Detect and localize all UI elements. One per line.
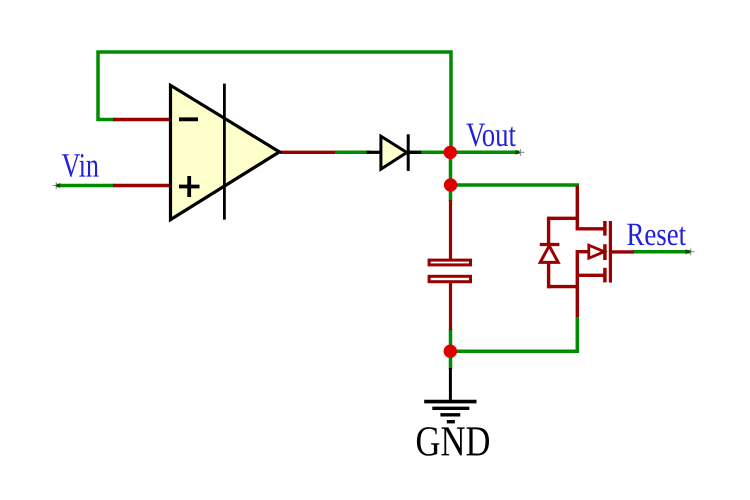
transistor Q1 bottom horizontal to body diode	[549, 285, 579, 288]
wire MOSFET source down to bottom wire	[576, 317, 580, 353]
pin op-amp non-inverting input	[113, 184, 170, 187]
pin diode cathode stub	[408, 151, 421, 154]
ground symbol bar 3	[440, 413, 460, 416]
pin ground	[449, 368, 452, 402]
wire bottom horizontal junction3 to MOSFET source	[451, 349, 579, 353]
transistor Q1 gate bar	[609, 221, 612, 283]
ground symbol bar 4	[447, 420, 455, 423]
wire capacitor bottom to junction3	[449, 329, 453, 352]
transistor Q1 source contact bar	[603, 268, 607, 283]
pin op-amp output	[280, 151, 335, 154]
diode D1 cathode bar	[407, 134, 410, 171]
capacitor C1 top plate	[429, 260, 470, 265]
op-amp U1 power rail line	[223, 84, 226, 220]
wire op-amp output to diode anode	[334, 151, 371, 155]
transistor Q1 body diode cathode bar	[540, 243, 560, 246]
op-amp U1 minus symbol	[179, 117, 198, 121]
wire junction2 down to capacitor pin	[449, 185, 453, 201]
transistor Q1 body line	[577, 250, 598, 253]
transistor Q1 middle contact bar	[603, 244, 607, 260]
capacitor C1 bottom plate	[429, 276, 470, 281]
transistor Q1 drain contact bar	[603, 221, 607, 236]
label GND	[417, 427, 489, 456]
Vout wire end arrow	[516, 149, 525, 156]
pin MOSFET drain lead	[577, 186, 605, 229]
pin MOSFET gate (Reset)	[611, 250, 635, 253]
wire Vin net	[56, 184, 115, 188]
transistor Q1 body arrow	[589, 245, 605, 258]
wire Vout net stub	[450, 151, 520, 155]
diode D1 body	[381, 136, 407, 169]
junction node drain	[444, 178, 457, 191]
pin capacitor bottom	[449, 283, 452, 330]
Vin wire end arrow	[53, 182, 61, 189]
wire junction2 to MOSFET drain column	[451, 183, 580, 187]
transistor Q1 body diode triangle	[540, 246, 558, 263]
pin capacitor top	[449, 200, 452, 259]
junction node ground	[444, 345, 457, 358]
label Vout	[466, 124, 516, 147]
op-amp U1 body	[171, 85, 280, 219]
label Vin	[62, 154, 99, 177]
wire junction3 to ground pin	[449, 351, 453, 369]
wire diode cathode to node Vout	[408, 151, 452, 155]
pin op-amp inverting input	[113, 118, 170, 121]
ground symbol bar 2	[432, 407, 469, 410]
label Reset	[627, 224, 686, 246]
transistor Q1 source horizontal	[577, 274, 605, 277]
wire Reset net stub	[633, 250, 691, 254]
transistor Q1 body diode branch lower	[547, 263, 550, 289]
transistor Q1 top horizontal to body diode	[549, 217, 579, 220]
op-amp U1 plus symbol	[179, 176, 200, 197]
pin MOSFET source lead	[576, 250, 579, 317]
ground symbol bar 1	[424, 400, 476, 404]
wire junction1 to junction2	[449, 151, 453, 186]
Reset wire end arrow	[686, 248, 695, 255]
pin diode anode stub	[367, 151, 383, 154]
transistor Q1 body diode branch upper	[547, 217, 550, 245]
wire feedback loop (output to inverting input)	[98, 52, 451, 153]
junction node Vout	[444, 146, 457, 159]
